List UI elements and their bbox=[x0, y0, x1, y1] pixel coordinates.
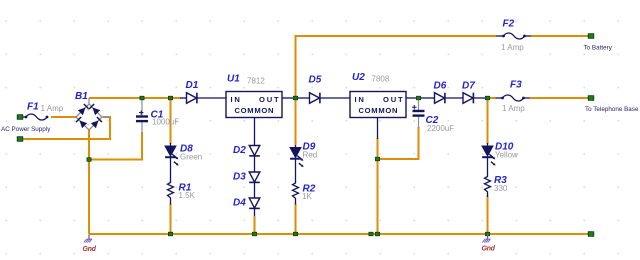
junction U1 output node bbox=[293, 96, 297, 100]
diode D4 bbox=[249, 198, 260, 208]
svg-text:Gnd: Gnd bbox=[482, 246, 496, 253]
resistor R1 bbox=[168, 181, 174, 205]
wire bottom ground rail bbox=[89, 233, 591, 235]
wire top rail from F2 to battery terminal bbox=[530, 35, 591, 37]
wire U2 common down to ground rail bbox=[377, 138, 379, 234]
junction U2 common bottom bbox=[375, 232, 379, 236]
diode D7 bbox=[446, 93, 488, 104]
svg-text:Yellow: Yellow bbox=[495, 151, 518, 160]
terminal AC input lower bbox=[17, 137, 23, 142]
svg-text:Red: Red bbox=[303, 151, 318, 160]
diode D6 bbox=[419, 93, 445, 104]
svg-text:D3: D3 bbox=[233, 172, 246, 183]
svg-text:7808: 7808 bbox=[372, 75, 390, 84]
wire D8 branch upper bbox=[170, 98, 172, 144]
svg-text:U2: U2 bbox=[352, 72, 365, 83]
junction D4 bottom bbox=[252, 232, 256, 236]
svg-text:D6: D6 bbox=[434, 81, 447, 92]
svg-text:7812: 7812 bbox=[247, 77, 265, 86]
svg-text:1000uF: 1000uF bbox=[152, 118, 179, 127]
junction C1 top bbox=[140, 96, 144, 100]
svg-text:D5: D5 bbox=[309, 75, 322, 86]
wire top rail from U1 output up and right to fuse F2 bbox=[296, 36, 497, 98]
junction C1 ground link bbox=[87, 158, 91, 162]
junction D8 top bbox=[168, 96, 172, 100]
resistor R2 bbox=[293, 182, 299, 205]
svg-text:To Telephone Base: To Telephone Base bbox=[585, 106, 639, 113]
svg-text:F2: F2 bbox=[503, 19, 515, 30]
svg-text:COMMON: COMMON bbox=[359, 106, 399, 115]
diode D5 bbox=[296, 93, 351, 104]
junction D8 bottom bbox=[168, 232, 172, 236]
svg-text:F1: F1 bbox=[27, 102, 39, 113]
capacitor C2 bbox=[412, 98, 424, 128]
wire AC lower from terminal to bridge right corner bbox=[20, 117, 110, 139]
wire AC upper from fuse F1 to bridge bbox=[51, 116, 76, 118]
resistor R3 bbox=[485, 175, 491, 197]
junction R2 bottom bbox=[293, 232, 297, 236]
op-amp U1 regulator 7812 bbox=[226, 92, 282, 118]
fuse F3 bbox=[496, 95, 530, 101]
diode D1 bbox=[180, 93, 226, 104]
wire D10 branch upper bbox=[487, 98, 489, 144]
wire U1 OUT to junction bbox=[282, 97, 296, 99]
svg-text:D4: D4 bbox=[233, 198, 246, 209]
wire D10 branch lower bbox=[487, 196, 489, 235]
wire bridge bottom down to ground rail bbox=[88, 130, 90, 234]
svg-text:D2: D2 bbox=[233, 145, 246, 156]
terminal ground rail end bbox=[588, 232, 594, 237]
capacitor C1 bbox=[136, 98, 148, 133]
svg-text:1.5K: 1.5K bbox=[179, 191, 196, 200]
bridge rectifier B1 bbox=[76, 98, 110, 130]
wire U2 COMMON down bbox=[377, 118, 379, 140]
wire D8 branch lower bbox=[170, 204, 172, 235]
LED D8 green bbox=[165, 143, 179, 182]
LED D9 red bbox=[290, 145, 304, 182]
wire main rail bridge output to D1 bbox=[89, 97, 181, 99]
junction F3 node bbox=[485, 96, 489, 100]
svg-text:To Battery: To Battery bbox=[584, 45, 613, 52]
svg-text:Green: Green bbox=[180, 153, 202, 162]
wire U2 OUT to junction bbox=[406, 97, 419, 99]
svg-text:330: 330 bbox=[494, 184, 508, 193]
wire D9 branch upper bbox=[295, 98, 297, 146]
junction D10 bottom bbox=[485, 232, 489, 236]
diode D2 bbox=[249, 146, 260, 156]
terminal To Telephone Base bbox=[588, 96, 594, 101]
svg-text:1K: 1K bbox=[302, 192, 312, 201]
wire D2 to D3 bbox=[254, 156, 256, 172]
svg-text:1 Amp: 1 Amp bbox=[501, 43, 524, 52]
svg-text:OUT: OUT bbox=[259, 95, 280, 104]
svg-text:1 Amp: 1 Amp bbox=[41, 104, 64, 113]
wire C1 bottom to ground branch bbox=[90, 132, 142, 160]
svg-text:Gnd: Gnd bbox=[83, 246, 97, 253]
ground left bbox=[84, 235, 92, 243]
svg-text:B1: B1 bbox=[75, 91, 88, 102]
svg-text:OUT: OUT bbox=[383, 95, 404, 104]
wire D4 to ground rail bbox=[254, 209, 256, 235]
fuse F1 bbox=[20, 114, 48, 120]
op-amp U2 regulator 7808 bbox=[350, 92, 406, 118]
terminal AC input upper bbox=[17, 115, 23, 120]
wire D9 branch lower bbox=[295, 204, 297, 235]
svg-text:1 Amp: 1 Amp bbox=[502, 104, 525, 113]
svg-text:COMMON: COMMON bbox=[235, 106, 275, 115]
svg-text:2200uF: 2200uF bbox=[427, 124, 454, 133]
svg-text:U1: U1 bbox=[227, 74, 240, 85]
wire C2 bottom to U2 common bbox=[378, 127, 419, 159]
diode D3 bbox=[249, 172, 260, 182]
ground right bbox=[482, 235, 490, 243]
junction spare common bbox=[369, 232, 373, 236]
svg-text:+: + bbox=[87, 108, 91, 114]
wire F3 to telephone terminal bbox=[530, 97, 592, 99]
junction U2 output node bbox=[416, 96, 420, 100]
svg-text:D1: D1 bbox=[186, 80, 199, 91]
terminal To Battery bbox=[588, 34, 594, 39]
junction C2 common link bbox=[375, 157, 379, 161]
svg-text:F3: F3 bbox=[510, 80, 522, 91]
LED D10 yellow bbox=[482, 143, 496, 176]
svg-text:AC Power Supply: AC Power Supply bbox=[1, 126, 51, 133]
wire U1 COMMON down bbox=[254, 118, 256, 146]
fuse F2 bbox=[496, 33, 531, 39]
svg-text:IN: IN bbox=[355, 95, 366, 104]
svg-text:IN: IN bbox=[231, 95, 242, 104]
wire D3 to D4 bbox=[254, 183, 256, 199]
wire junction to fuse F3 bbox=[488, 97, 496, 99]
svg-text:D7: D7 bbox=[462, 81, 475, 92]
